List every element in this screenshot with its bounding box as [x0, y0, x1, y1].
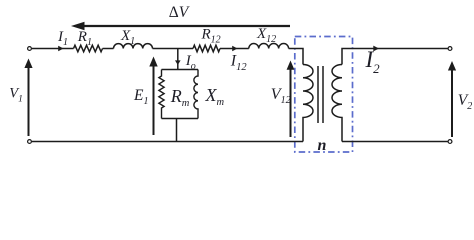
wire X1 to node, node to R12: [153, 48, 194, 50]
voltage arrow V12: [290, 66, 292, 137]
voltage arrow V1: [28, 64, 30, 136]
inductor X1: [114, 44, 153, 49]
resistor R12: [193, 45, 220, 52]
transformer T secondary winding: [332, 65, 342, 142]
wire bottom rail left: [32, 141, 303, 143]
emf arrow E1: [153, 62, 155, 135]
current arrow I12: [232, 46, 237, 51]
svg-text:ΔV: ΔV: [169, 4, 190, 21]
svg-text:n: n: [318, 137, 327, 154]
resistor Rm (vertical zigzag): [159, 70, 164, 119]
current arrow I1: [58, 46, 63, 51]
magnetizing branch top bar: [162, 69, 199, 71]
voltage arrow V2: [451, 66, 453, 137]
wire top rail left segment: [32, 48, 74, 50]
node terminal bottom-left: [28, 140, 32, 144]
magnetizing branch bottom bar: [162, 118, 199, 120]
current arrow I0 (down): [175, 60, 181, 65]
wire R12 to X12: [220, 48, 249, 50]
voltage arrow delta-V: [83, 25, 290, 27]
node terminal top-right: [448, 47, 452, 51]
wire between R1 and X1: [103, 48, 114, 50]
transformer T primary winding: [303, 65, 313, 142]
transformer core lines: [317, 66, 319, 123]
inductor X12: [249, 44, 289, 49]
wire X12 to transformer primary corner: [289, 49, 303, 65]
wire bottom rail right: [342, 141, 448, 143]
ideal transformer boundary (blue dash-dot box): [295, 37, 353, 153]
node terminal top-left: [28, 47, 32, 51]
inductor Xm (vertical coil, bumps left): [194, 70, 198, 119]
magnetizing branch stub from node (I0): [177, 49, 179, 70]
magnetizing branch bottom stub: [176, 119, 178, 142]
node terminal bottom-right: [448, 140, 452, 144]
current arrow I2: [373, 46, 379, 52]
resistor R1: [74, 45, 103, 52]
wire secondary top: [342, 49, 448, 65]
